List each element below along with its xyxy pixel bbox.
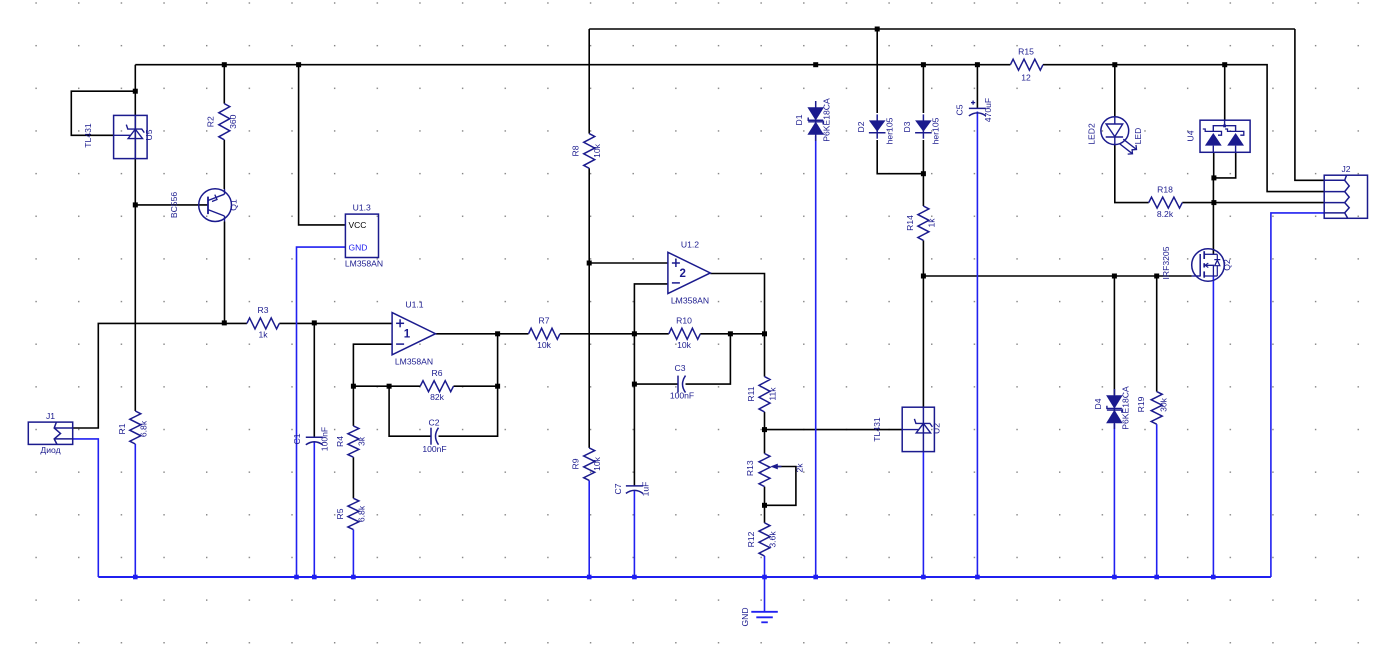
svg-text:10k: 10k bbox=[537, 340, 552, 350]
svg-text:U1.2: U1.2 bbox=[681, 239, 699, 249]
regulator U5 TL431 bbox=[83, 115, 154, 158]
svg-text:U1.1: U1.1 bbox=[405, 300, 423, 310]
node ground rail junction 4 bbox=[351, 575, 356, 580]
resistor R9 bbox=[571, 448, 603, 481]
svg-text:TL431: TL431 bbox=[83, 123, 93, 148]
svg-text:R1: R1 bbox=[117, 423, 127, 434]
svg-text:R12: R12 bbox=[746, 531, 756, 547]
wire U2 anode to rail bbox=[922, 452, 924, 577]
wire D3 bottom bbox=[922, 140, 924, 206]
TVS diode D1 P6KE18CA bbox=[794, 98, 832, 142]
svg-text:LED2: LED2 bbox=[1087, 123, 1097, 145]
resistor R3 bbox=[247, 305, 279, 340]
wire U4 right anode bbox=[1214, 152, 1236, 178]
node C3 left junction bbox=[632, 382, 637, 387]
op-amp U1.1 bbox=[392, 300, 435, 367]
capacitor C1 bbox=[292, 427, 330, 451]
potentiometer R13 bbox=[745, 454, 805, 487]
wire U1.3 VCC bbox=[299, 65, 346, 225]
svg-text:TL431: TL431 bbox=[872, 417, 882, 442]
wire R6 right bbox=[454, 385, 498, 387]
wire R10 right bbox=[700, 333, 764, 335]
node LED2 top bbox=[1112, 62, 1117, 67]
svg-text:12: 12 bbox=[1021, 73, 1031, 83]
svg-text:8.2k: 8.2k bbox=[1157, 209, 1174, 219]
wire net A drop to R8 bbox=[588, 29, 590, 134]
wire U2 cathode top bbox=[922, 276, 924, 407]
wire C5 top lead bbox=[976, 65, 978, 109]
svg-text:3k: 3k bbox=[356, 436, 366, 446]
svg-text:3.6k: 3.6k bbox=[768, 531, 778, 548]
node ground rail junction 12 bbox=[1154, 575, 1159, 580]
wire U1.2 minus bbox=[634, 284, 668, 334]
svg-text:D1: D1 bbox=[794, 114, 804, 125]
svg-text:C7: C7 bbox=[613, 483, 623, 494]
wire C2 right bbox=[439, 334, 498, 436]
svg-text:R5: R5 bbox=[335, 508, 345, 519]
resistor R18 bbox=[1149, 185, 1183, 220]
node D2/D3 junction bbox=[921, 171, 926, 176]
node gate row left junction bbox=[921, 274, 926, 279]
node R6 right junction bbox=[495, 384, 500, 389]
node D3 top bbox=[921, 62, 926, 67]
svg-text:1: 1 bbox=[404, 329, 411, 341]
svg-text:J1: J1 bbox=[46, 411, 55, 421]
node minus/R4 junction bbox=[351, 384, 356, 389]
op-amp power U1.3 bbox=[345, 203, 383, 269]
wire C1 top bbox=[313, 323, 315, 437]
node ground rail junction 5 bbox=[587, 575, 592, 580]
node R13 bottom junction bbox=[762, 503, 767, 508]
wire C7 top bbox=[633, 384, 635, 486]
svg-text:6.8k: 6.8k bbox=[139, 420, 149, 437]
wire R10 row bbox=[634, 333, 668, 335]
svg-text:1k: 1k bbox=[927, 218, 937, 228]
svg-text:30k: 30k bbox=[1159, 397, 1169, 412]
wire R12 bottom to rail bbox=[764, 556, 766, 577]
node C3 right junction bbox=[728, 331, 733, 336]
wire R11 to U2 ref row bbox=[764, 412, 766, 454]
node U2 ref junction bbox=[762, 427, 767, 432]
dual diode U4 bbox=[1186, 120, 1251, 152]
wire U1.3 GND to rail bbox=[297, 247, 346, 577]
resistor R2 bbox=[205, 104, 238, 140]
svg-text:LM358AN: LM358AN bbox=[395, 357, 433, 367]
wire Q1 collector down bbox=[224, 222, 226, 323]
svg-text:2: 2 bbox=[679, 268, 685, 280]
svg-text:100nF: 100nF bbox=[320, 427, 330, 451]
resistor R4 bbox=[335, 426, 367, 457]
svg-text:U1.3: U1.3 bbox=[353, 203, 371, 213]
node ground rail junction 6 bbox=[632, 575, 637, 580]
svg-text:10k: 10k bbox=[592, 456, 602, 471]
svg-text:her105: her105 bbox=[931, 117, 941, 144]
node ground rail junction 1 bbox=[133, 575, 138, 580]
node U1.1 out junction bbox=[495, 331, 500, 336]
resistor R14 bbox=[905, 206, 937, 240]
svg-text:D4: D4 bbox=[1093, 398, 1103, 409]
node D1 top bbox=[813, 62, 818, 67]
svg-text:R8: R8 bbox=[571, 145, 581, 156]
node Q1 base junction bbox=[133, 202, 138, 207]
svg-text:D2: D2 bbox=[856, 121, 866, 132]
capacitor C7 bbox=[613, 482, 651, 497]
wire U1.1 minus bbox=[353, 344, 392, 386]
wire C1 bottom to rail bbox=[313, 442, 315, 577]
svg-text:82k: 82k bbox=[430, 392, 445, 402]
wire C2 left drop bbox=[389, 386, 431, 436]
node R7/R10 junction bbox=[632, 331, 637, 336]
wire C5 bottom to rail bbox=[976, 112, 978, 578]
wire U2 ref row bbox=[765, 429, 903, 431]
wire R5 bottom to rail bbox=[352, 530, 354, 577]
wire R19 bottom to rail bbox=[1156, 424, 1158, 577]
wire main rail net B left bbox=[135, 64, 1010, 66]
resistor R7 bbox=[529, 316, 560, 351]
wire U1.2 out bbox=[710, 274, 764, 334]
connector J1 bbox=[28, 411, 72, 455]
capacitor C3 bbox=[670, 363, 694, 401]
svg-text:100nF: 100nF bbox=[422, 444, 446, 454]
svg-text:Q2: Q2 bbox=[1222, 259, 1232, 271]
resistor R19 bbox=[1136, 392, 1169, 425]
node ground rail junction 13 bbox=[1211, 575, 1216, 580]
wire J2 pin4 to rail bbox=[1271, 213, 1324, 577]
wire R14 bottom bbox=[922, 240, 924, 276]
wire U4 left anode bbox=[1213, 152, 1215, 178]
svg-text:C1: C1 bbox=[292, 433, 302, 444]
svg-text:10k: 10k bbox=[592, 143, 602, 158]
regulator U2 TL431 bbox=[872, 407, 942, 451]
svg-text:1k: 1k bbox=[258, 330, 268, 340]
svg-text:P6KE18CA: P6KE18CA bbox=[1121, 386, 1131, 430]
node R11 top junction bbox=[762, 331, 767, 336]
node ground rail junction 7 bbox=[762, 575, 767, 580]
svg-text:BC556: BC556 bbox=[169, 192, 179, 218]
resistor R1 bbox=[117, 411, 149, 444]
node Q1 collector junction bbox=[222, 320, 227, 325]
wire C3 left bbox=[634, 383, 678, 385]
wire R2 top lead bbox=[223, 65, 225, 104]
wire main rail net B right bbox=[1043, 65, 1324, 192]
wire D1 bottom to rail bbox=[815, 136, 817, 577]
resistor R6 bbox=[420, 368, 453, 402]
capacitor C2 bbox=[422, 418, 446, 455]
wire Q1 base bbox=[135, 204, 208, 206]
node R19 top junction bbox=[1154, 274, 1159, 279]
wire feedback row R6 bbox=[353, 385, 420, 387]
wire minus to C3 row bbox=[633, 334, 635, 384]
wire D2 top lead bbox=[876, 29, 878, 113]
wire C7 bottom to rail bbox=[633, 491, 635, 578]
node U1.2 plus tap bbox=[587, 261, 592, 266]
svg-text:360: 360 bbox=[228, 114, 238, 129]
wire LED2 to R18 bbox=[1115, 144, 1149, 202]
node R2 top bbox=[222, 62, 227, 67]
svg-text:R2: R2 bbox=[205, 116, 215, 127]
node U4 anode junction bbox=[1211, 175, 1216, 180]
svg-text:C5: C5 bbox=[955, 104, 965, 115]
svg-text:P6KE18CA: P6KE18CA bbox=[822, 98, 832, 142]
svg-text:IRF3205: IRF3205 bbox=[1161, 246, 1171, 279]
wire gate row bbox=[923, 275, 1191, 277]
svg-text:2k: 2k bbox=[795, 463, 805, 473]
wire J1 pin1 to R3 row bbox=[73, 323, 247, 428]
wire top rail net A bbox=[589, 28, 1295, 30]
node C2 left junction bbox=[387, 384, 392, 389]
node ground rail junction 11 bbox=[1112, 575, 1117, 580]
svg-text:GND: GND bbox=[349, 242, 368, 252]
node D2 top junction bbox=[875, 27, 880, 32]
wire R1 bottom to rail bbox=[134, 444, 136, 577]
wire R19 top lead bbox=[1156, 276, 1158, 392]
wire R18 to J2 pin3 bbox=[1182, 202, 1324, 204]
svg-text:R6: R6 bbox=[432, 368, 443, 378]
node ground rail junction 8 bbox=[813, 575, 818, 580]
svg-text:LED: LED bbox=[1133, 128, 1143, 145]
wire R9 bottom to rail bbox=[588, 480, 590, 577]
svg-text:R4: R4 bbox=[335, 436, 345, 447]
resistor R8 bbox=[571, 134, 603, 169]
wire R7 to U1.2 minus drop bbox=[560, 333, 635, 335]
svg-text:Диод: Диод bbox=[40, 445, 60, 455]
wire net A drop to J2 pin1 bbox=[1295, 29, 1324, 180]
svg-text:U2: U2 bbox=[932, 423, 942, 434]
diode D2 her105 bbox=[856, 114, 895, 144]
wire C3 right bbox=[686, 334, 731, 384]
svg-text:100nF: 100nF bbox=[670, 391, 694, 401]
svg-text:R18: R18 bbox=[1157, 185, 1173, 195]
wire U1.2 plus bbox=[589, 262, 668, 264]
wire D2 bottom bbox=[877, 140, 923, 174]
svg-text:Q1: Q1 bbox=[229, 199, 239, 211]
wire GND stub bbox=[764, 577, 766, 611]
svg-text:6.8k: 6.8k bbox=[356, 505, 366, 522]
svg-text:11k: 11k bbox=[768, 387, 778, 401]
TVS diode D4 P6KE18CA bbox=[1093, 386, 1131, 430]
svg-text:R11: R11 bbox=[746, 386, 756, 401]
svg-text:R15: R15 bbox=[1018, 47, 1034, 57]
svg-text:470uF: 470uF bbox=[983, 98, 993, 122]
connector J2 bbox=[1324, 164, 1367, 218]
wire D3 top lead bbox=[922, 65, 924, 113]
svg-text:D3: D3 bbox=[902, 121, 912, 132]
resistor R5 bbox=[335, 498, 367, 529]
svg-text:R14: R14 bbox=[905, 215, 915, 231]
svg-text:R9: R9 bbox=[571, 458, 581, 469]
resistor R12 bbox=[746, 523, 778, 556]
wire LED2 top lead bbox=[1114, 65, 1116, 118]
svg-text:R19: R19 bbox=[1136, 396, 1146, 412]
wire left column TL431/Q1/R1 bbox=[134, 65, 136, 411]
svg-text:R7: R7 bbox=[539, 316, 550, 326]
svg-text:R13: R13 bbox=[745, 460, 755, 476]
svg-text:her105: her105 bbox=[885, 117, 895, 144]
resistor R11 bbox=[746, 377, 778, 412]
node R18 junction bbox=[1211, 200, 1216, 205]
resistor R10 bbox=[669, 316, 701, 351]
svg-text:VCC: VCC bbox=[349, 220, 367, 230]
svg-text:C3: C3 bbox=[675, 363, 686, 373]
svg-text:R10: R10 bbox=[676, 316, 692, 326]
wire U5 ref loop bbox=[71, 91, 135, 135]
wire R3 to U1.1 plus bbox=[279, 322, 392, 324]
node U5 ref loop junction bbox=[133, 89, 138, 94]
svg-text:C2: C2 bbox=[429, 418, 440, 428]
wire J1 pin2 to rail bbox=[73, 439, 99, 577]
wire R4-R5 link bbox=[352, 457, 354, 498]
node ground rail junction 3 bbox=[312, 575, 317, 580]
LED LED2 bbox=[1087, 117, 1144, 154]
wire Q2 source to rail bbox=[1212, 277, 1214, 578]
transistor Q2 IRF3205 bbox=[1161, 246, 1232, 281]
svg-text:U4: U4 bbox=[1186, 130, 1196, 141]
wire U4 cathode lead bbox=[1224, 65, 1226, 121]
wire U4 junction to Q2 drain bbox=[1212, 178, 1214, 254]
diode D3 her105 bbox=[902, 114, 941, 144]
node C5 top bbox=[975, 62, 980, 67]
node D4 top junction bbox=[1112, 274, 1117, 279]
node ground rail junction 9 bbox=[921, 575, 926, 580]
svg-text:10k: 10k bbox=[677, 340, 692, 350]
svg-text:J2: J2 bbox=[1341, 164, 1350, 174]
wire R4 top lead bbox=[352, 386, 354, 426]
svg-text:U5: U5 bbox=[144, 129, 154, 140]
capacitor C5 470uF bbox=[955, 98, 994, 122]
node ground rail junction 2 bbox=[294, 575, 299, 580]
node C1 tap bbox=[312, 320, 317, 325]
svg-text:GND: GND bbox=[740, 607, 750, 626]
op-amp U1.2 bbox=[668, 239, 710, 305]
node U4 top bbox=[1222, 62, 1227, 67]
node VCC tap bbox=[296, 62, 301, 67]
wire R11 top lead bbox=[764, 334, 766, 377]
svg-text:LM358AN: LM358AN bbox=[345, 259, 383, 269]
wire R2 to Q1 emitter bbox=[223, 140, 225, 189]
ground symbol GND bbox=[740, 607, 778, 626]
svg-text:R3: R3 bbox=[258, 305, 269, 315]
node ground rail junction 10 bbox=[975, 575, 980, 580]
wire D4 top lead bbox=[1113, 276, 1115, 395]
wire R13 to R12 bbox=[764, 487, 766, 523]
transistor Q1 BC556 bbox=[169, 189, 239, 222]
wire R8 bottom to R9 bbox=[588, 168, 590, 448]
wire R13 wiper bbox=[765, 467, 796, 506]
wire U1.1 out bbox=[436, 333, 529, 335]
resistor R15 bbox=[1010, 47, 1043, 83]
wire ground rail bbox=[98, 576, 1271, 578]
wire D4 bottom to rail bbox=[1113, 424, 1115, 577]
svg-text:LM358AN: LM358AN bbox=[671, 296, 709, 306]
svg-text:1uF: 1uF bbox=[641, 482, 651, 497]
